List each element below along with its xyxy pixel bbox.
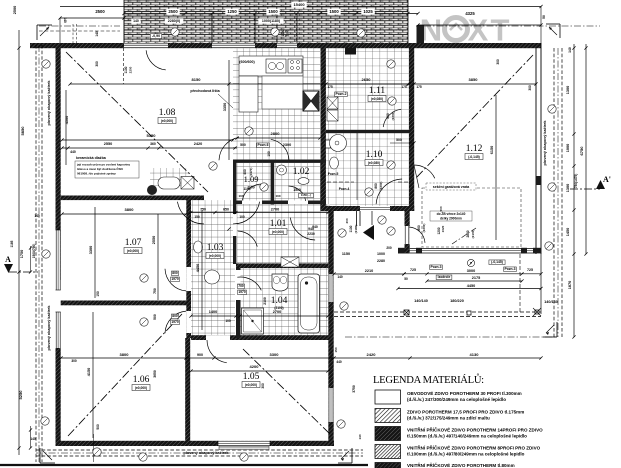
window west wall 1.06 — [56, 312, 61, 352]
room label 1.12 — [465, 144, 483, 160]
svg-text:140/140: 140/140 — [544, 300, 558, 304]
svg-text:1.11: 1.11 — [369, 86, 386, 96]
bathtub 1.04 — [298, 274, 320, 333]
svg-text:těleso a musí být dodržena ČSN: těleso a musí být dodržena ČSN — [77, 166, 123, 171]
svg-text:1750: 1750 — [20, 250, 24, 258]
svg-text:500: 500 — [396, 138, 402, 142]
svg-text:50: 50 — [542, 15, 546, 19]
svg-text:T: T — [491, 13, 510, 48]
washbasin 1.04 — [272, 274, 288, 291]
svg-text:300: 300 — [95, 61, 99, 67]
svg-text:6750: 6750 — [579, 146, 584, 156]
svg-text:4130: 4130 — [470, 352, 480, 357]
diagonal 1.08 — [66, 52, 208, 192]
svg-text:175: 175 — [416, 85, 422, 89]
kitchen lower counter — [239, 76, 258, 112]
wall south of baths — [191, 335, 334, 340]
wall west exterior lower — [56, 348, 61, 445]
svg-text:tl.100mm (d./š./v.) 497/80/249: tl.100mm (d./š./v.) 497/80/249mm na celo… — [407, 452, 525, 457]
svg-text:5350: 5350 — [147, 133, 157, 138]
roof overhang dashdot — [345, 336, 557, 338]
svg-text:1970: 1970 — [171, 277, 179, 281]
room label 1.04 — [271, 296, 288, 310]
east wall pier — [536, 176, 542, 185]
svg-text:725: 725 — [527, 268, 533, 272]
eaves strip northwest — [39, 26, 120, 31]
kitchen counter — [239, 56, 303, 76]
room label 1.05 — [242, 372, 260, 388]
svg-text:1300: 1300 — [566, 86, 570, 94]
wall between 1.06 and 1.05 — [185, 338, 190, 441]
wall west of hall — [233, 204, 236, 264]
svg-text:440: 440 — [70, 150, 76, 154]
svg-text:plovený okapový kačírek: plovený okapový kačírek — [543, 120, 547, 166]
terrace posts — [404, 308, 541, 316]
room label 1.08 — [158, 108, 176, 124]
svg-text:VNITŘNÍ PŘÍČKOVÉ ZDIVO POROTHE: VNITŘNÍ PŘÍČKOVÉ ZDIVO POROTHERM tl.80mm — [407, 461, 515, 468]
dim 2800 kitchen — [235, 131, 321, 157]
window north 1 — [124, 43, 168, 48]
dim 4200 1.05 — [189, 364, 329, 389]
svg-text:X: X — [468, 13, 489, 48]
wall between 1.09 and 1.02 — [271, 160, 275, 205]
svg-text:2210: 2210 — [365, 269, 373, 273]
window3 dims — [281, 18, 297, 43]
dim line right — [566, 44, 578, 339]
door vestibule entry — [405, 226, 426, 244]
svg-text:6150: 6150 — [490, 146, 494, 154]
svg-text:2100: 2100 — [263, 297, 267, 305]
window south wall — [218, 441, 270, 446]
dim line 4325 — [416, 5, 546, 43]
svg-text:2175: 2175 — [472, 276, 480, 280]
dim 1150 950 1.10 — [328, 172, 350, 191]
svg-text:plovený okapový kačírek: plovený okapový kačírek — [47, 305, 51, 351]
dim line right outer — [579, 44, 588, 256]
kitchen sink — [266, 59, 286, 73]
svg-text:5850: 5850 — [20, 126, 25, 136]
svg-text:500: 500 — [96, 424, 100, 430]
svg-text:440: 440 — [336, 360, 342, 364]
svg-text:(2200): (2200) — [422, 224, 426, 233]
tile floor hall 1.01 — [237, 204, 330, 263]
svg-text:(600/600): (600/600) — [239, 60, 255, 64]
wall between 1.11 and 1.10 — [326, 130, 409, 133]
svg-text:tl.150mm (d./š./v.) 497/140/24: tl.150mm (d./š./v.) 497/140/249mm na cel… — [407, 434, 527, 439]
door labels 1.07 — [171, 271, 180, 325]
svg-text:1300: 1300 — [566, 184, 570, 192]
svg-text:-0,90: -0,90 — [152, 34, 160, 38]
svg-text:Pozn.2: Pozn.2 — [336, 92, 347, 96]
window north 2 — [212, 43, 255, 48]
svg-text:1970: 1970 — [238, 290, 246, 294]
wall east of vestibule — [405, 211, 410, 253]
svg-text:(2200): (2200) — [391, 112, 395, 121]
svg-text:750: 750 — [153, 288, 157, 294]
door 1.07 lower — [165, 311, 186, 333]
door gaps west of 1.03 — [186, 267, 191, 333]
doors 1.08 to hall — [177, 202, 259, 224]
svg-text:3300: 3300 — [270, 352, 280, 357]
svg-text:VNITŘNÍ PŘÍČKOVÉ ZDIVO POROTHE: VNITŘNÍ PŘÍČKOVÉ ZDIVO POROTHERM 8PROFI … — [407, 443, 541, 450]
svg-text:VNITŘNÍ PŘÍČKOVÉ ZDIVO POROTHE: VNITŘNÍ PŘÍČKOVÉ ZDIVO POROTHERM 14PROFI… — [407, 425, 543, 432]
corner bracket SW — [40, 448, 55, 463]
post labels — [414, 299, 558, 304]
svg-text:2550: 2550 — [152, 236, 156, 244]
window wall dims — [396, 259, 542, 290]
svg-text:4200: 4200 — [250, 364, 260, 369]
tile floor room 1.03 — [191, 200, 235, 336]
svg-text:150: 150 — [334, 347, 338, 352]
dim 5350 — [60, 133, 234, 142]
wall top of 1.09 1.02 — [233, 160, 326, 163]
window west wall 1.07 — [56, 230, 61, 290]
svg-text:1.07: 1.07 — [125, 238, 142, 248]
note do vence — [430, 206, 472, 232]
door 1.11 — [383, 109, 401, 127]
door 1.12 side — [414, 165, 435, 188]
dim 2550 vert 1.07 — [152, 214, 158, 300]
brick band overlay lines — [124, 0, 408, 43]
porch line top left — [60, 17, 124, 43]
tile floor room 1.04 — [241, 268, 329, 338]
wall south of 1.10 — [321, 206, 415, 211]
svg-text:1.02: 1.02 — [293, 167, 310, 177]
svg-text:1.06: 1.06 — [133, 375, 150, 385]
tile floor room 1.10 — [326, 133, 409, 206]
svg-text:1.12: 1.12 — [466, 144, 483, 154]
svg-text:200: 200 — [345, 218, 349, 223]
svg-text:OBVODOVÉ ZDIVO POROTHERM 30 PR: OBVODOVÉ ZDIVO POROTHERM 30 PROFI tl.300… — [407, 389, 522, 396]
svg-text:1870: 1870 — [568, 281, 572, 289]
ext line bottom left — [93, 434, 95, 462]
dim 2550 row — [60, 142, 237, 154]
door 1.10 — [376, 179, 402, 204]
svg-text:15400: 15400 — [293, 2, 305, 7]
dim 8150 — [68, 77, 409, 86]
porch dashes — [73, 24, 77, 43]
svg-text:1.04: 1.04 — [271, 296, 288, 306]
svg-text:(±0,000): (±0,000) — [245, 383, 257, 387]
svg-text:100: 100 — [238, 194, 243, 198]
label 600/600 — [239, 60, 255, 64]
room label 1.03 — [206, 243, 224, 259]
svg-text:plovený okapový kačírek: plovený okapový kačírek — [184, 451, 230, 455]
room label 1.02 — [293, 167, 310, 177]
tile floor room 1.11 — [326, 48, 409, 130]
section mark A prime — [570, 175, 611, 189]
svg-text:Pozn.3: Pozn.3 — [431, 265, 442, 269]
wall pier kitchen north — [345, 48, 356, 55]
svg-text:1.10: 1.10 — [366, 150, 383, 160]
svg-text:A: A — [5, 255, 11, 264]
svg-text:200: 200 — [386, 246, 392, 250]
svg-text:2200: 2200 — [286, 29, 290, 36]
circle markers — [41, 28, 556, 461]
svg-text:1000(1180): 1000(1180) — [262, 19, 281, 23]
svg-text:(d./š./v.) 372/175/249mm na zd: (d./š./v.) 372/175/249mm na zdící maltu — [407, 416, 490, 421]
svg-text:1020: 1020 — [441, 225, 445, 232]
svg-text:1500: 1500 — [329, 9, 339, 14]
window east wall upper — [328, 274, 333, 302]
toilet 1.02 — [277, 165, 310, 184]
pillar at brick end — [417, 25, 425, 43]
svg-text:2280: 2280 — [377, 259, 385, 263]
entry mat — [281, 257, 299, 267]
left dim inner segments — [29, 246, 32, 450]
brick facing north facade — [124, 0, 408, 43]
texts 1.09 dims — [238, 168, 317, 229]
dim line bottom terrace — [332, 352, 542, 360]
note keramicka dlazba — [75, 156, 139, 178]
dim 3850 1.12 — [412, 77, 537, 91]
door label 1.10 — [374, 182, 383, 191]
eaves strip south — [36, 450, 363, 456]
svg-text:140: 140 — [63, 17, 67, 23]
sill south window — [219, 446, 269, 449]
svg-text:100: 100 — [275, 194, 280, 198]
svg-text:300: 300 — [71, 359, 77, 363]
dim 4150 vert 1.06 — [71, 312, 157, 438]
svg-text:LEGENDA MATERIÁLŮ:: LEGENDA MATERIÁLŮ: — [373, 373, 484, 386]
svg-text:(d./š./v.) 247/300/249mm na ce: (d./š./v.) 247/300/249mm na celoplošné l… — [407, 397, 506, 402]
svg-text:(-0,145): (-0,145) — [468, 155, 480, 159]
svg-text:140/140: 140/140 — [414, 299, 428, 303]
wall west of 1.03 — [186, 200, 191, 338]
svg-text:940: 940 — [308, 227, 314, 231]
room label 1.09 — [244, 174, 259, 190]
svg-text:4500: 4500 — [65, 116, 69, 124]
window north 3 — [277, 43, 297, 48]
dim 6150 vert 1.12 — [490, 59, 500, 240]
svg-text:2420: 2420 — [194, 142, 202, 146]
hall dim row — [189, 208, 329, 220]
wall south of 1.09 1.02 — [233, 201, 326, 205]
door 1.02 — [289, 186, 306, 201]
wall west of 1.09 — [233, 160, 236, 205]
level box -0.90 — [150, 34, 161, 39]
svg-text:1.09: 1.09 — [244, 174, 259, 184]
svg-text:800: 800 — [172, 314, 178, 318]
svg-text:4150: 4150 — [87, 368, 91, 376]
svg-text:150: 150 — [96, 291, 100, 297]
diagonal 1.06 — [68, 314, 182, 436]
svg-text:3800: 3800 — [120, 352, 130, 357]
dim 2700 1.04 — [238, 297, 329, 317]
svg-text:2650: 2650 — [362, 77, 372, 82]
svg-text:délky 2000mm: délky 2000mm — [440, 217, 462, 221]
door hall to 1.03 — [238, 231, 258, 247]
corner bracket SE terrace — [543, 322, 557, 337]
svg-text:1185: 1185 — [10, 240, 14, 247]
wc 1.03 — [194, 241, 203, 253]
svg-text:2230: 2230 — [307, 232, 315, 236]
wall north of 1.04 — [236, 263, 328, 268]
door hall east — [290, 218, 315, 240]
wall between 1.07 and 1.06 — [61, 301, 187, 306]
svg-text:sekční garážová vrata: sekční garážová vrata — [433, 185, 469, 189]
svg-text:500: 500 — [153, 314, 157, 320]
svg-text:180/220: 180/220 — [450, 299, 464, 303]
svg-text:1.03: 1.03 — [207, 243, 224, 253]
svg-text:700: 700 — [238, 284, 244, 288]
wall west exterior upper — [56, 43, 61, 280]
corner bracket NW — [37, 25, 52, 40]
svg-text:(2200): (2200) — [379, 182, 383, 191]
eaves strip west — [36, 45, 42, 462]
svg-text:175: 175 — [327, 85, 333, 89]
svg-text:140: 140 — [133, 19, 139, 23]
entrance arrow marker — [363, 211, 374, 240]
svg-text:650: 650 — [223, 208, 229, 212]
svg-text:3000: 3000 — [467, 269, 475, 273]
dim 1400 1.03 — [189, 310, 237, 323]
kitchen stove — [288, 59, 302, 73]
svg-text:2200: 2200 — [129, 66, 133, 73]
corner bracket S right — [338, 448, 352, 463]
window east wall lower — [328, 388, 333, 422]
door kitchen south — [219, 137, 289, 160]
section dash 1.10 — [327, 181, 409, 183]
chimney flue box — [303, 91, 319, 111]
svg-text:Pozn.3: Pozn.3 — [505, 267, 516, 271]
dim line left outer — [10, 6, 36, 455]
svg-text:900: 900 — [197, 353, 203, 357]
svg-text:3750: 3750 — [352, 385, 356, 393]
svg-text:keramická dlažba: keramická dlažba — [76, 156, 107, 160]
east wall texts — [334, 347, 362, 439]
svg-text:1000: 1000 — [377, 252, 385, 256]
room label 1.11 — [368, 86, 386, 102]
fireplace stove — [147, 177, 194, 196]
door label 940 — [307, 227, 315, 236]
svg-text:150: 150 — [194, 215, 200, 219]
door gap to 1.03 — [206, 335, 230, 340]
svg-text:3350: 3350 — [223, 103, 227, 111]
svg-text:(±0,000): (±0,000) — [209, 254, 221, 258]
section mark A — [4, 255, 38, 273]
svg-text:3800: 3800 — [125, 207, 135, 212]
door 1.07 upper — [165, 269, 186, 291]
svg-text:2700: 2700 — [273, 310, 281, 314]
svg-text:1400: 1400 — [209, 310, 217, 314]
svg-text:500: 500 — [439, 206, 443, 211]
svg-text:2280(0): 2280(0) — [168, 19, 181, 23]
svg-text:140: 140 — [34, 214, 40, 218]
svg-text:(2180): (2180) — [354, 225, 358, 234]
door 1.08 entry top — [95, 48, 166, 84]
label sekcni vrata — [426, 183, 476, 190]
svg-text:140: 140 — [95, 31, 99, 37]
svg-text:(±0,080): (±0,080) — [371, 97, 383, 101]
svg-text:360: 360 — [150, 142, 156, 146]
tile floor kitchen 1.08 — [233, 48, 320, 160]
wall south solid west part — [56, 441, 335, 446]
washbasin 1.03 — [205, 270, 220, 284]
svg-text:1.01: 1.01 — [270, 219, 287, 229]
wall west of 1.12 — [409, 48, 414, 211]
svg-text:300: 300 — [261, 383, 265, 389]
svg-text:140: 140 — [358, 434, 362, 439]
heater tab 1.10 — [326, 140, 331, 148]
legend materials — [373, 373, 543, 468]
dim 3300 vert 1.07 — [89, 207, 95, 298]
wall north facade — [30, 43, 541, 48]
door 1.03 south — [207, 340, 227, 363]
svg-text:(±0,000): (±0,000) — [135, 386, 147, 390]
svg-text:1.08: 1.08 — [159, 108, 176, 118]
diagonal 1.12 — [416, 55, 533, 178]
svg-text:2850: 2850 — [466, 230, 470, 237]
svg-text:1000: 1000 — [566, 144, 570, 152]
svg-text:(2100): (2100) — [274, 306, 283, 310]
door label 1.11 — [386, 112, 395, 121]
wc 1.10 — [330, 157, 339, 169]
svg-text:1500: 1500 — [293, 188, 301, 192]
svg-text:1500(790): 1500(790) — [32, 244, 36, 259]
svg-text:1100: 1100 — [281, 29, 285, 36]
dims near 1.12 south — [417, 224, 475, 239]
svg-text:3300: 3300 — [89, 246, 93, 254]
svg-text:1.05: 1.05 — [243, 372, 260, 382]
svg-text:ZDIVO POROTHERM 17,5 PROFI PRO: ZDIVO POROTHERM 17,5 PROFI PRO ZDIVO tl.… — [407, 409, 524, 414]
svg-text:140: 140 — [337, 275, 343, 279]
leader prechodova — [190, 89, 233, 108]
dim 500 1.10 — [357, 133, 416, 200]
dim line top — [58, 9, 419, 20]
svg-text:4450: 4450 — [196, 264, 200, 272]
dim 4500 vert — [65, 90, 69, 165]
washbasin 1.10 — [330, 135, 347, 152]
eaves dashdot northeast — [424, 25, 600, 27]
dim row windows — [124, 18, 408, 24]
kitchen island table — [262, 76, 303, 109]
svg-text:1100: 1100 — [124, 66, 128, 73]
svg-text:100: 100 — [267, 151, 271, 157]
svg-text:Pozn.6: Pozn.6 — [258, 143, 269, 147]
corner bracket NE — [546, 24, 560, 38]
door 1.04 — [237, 277, 261, 290]
dim 2650 1.11 — [324, 77, 410, 89]
svg-text:(2100): (2100) — [471, 230, 475, 239]
svg-text:750(1475): 750(1475) — [574, 174, 578, 189]
svg-text:1150(...): 1150(...) — [301, 193, 311, 197]
svg-text:2800: 2800 — [271, 131, 281, 136]
terrace edge dashed — [334, 254, 541, 317]
svg-text:Izodrole: Izodrole — [438, 275, 451, 279]
svg-text:1100: 1100 — [349, 225, 353, 232]
diagonal vestibule — [452, 228, 476, 244]
svg-text:100: 100 — [239, 215, 245, 219]
terrace east edge — [540, 254, 542, 314]
shower tray 1.04 — [242, 308, 264, 334]
svg-text:(±0,000): (±0,000) — [127, 249, 139, 253]
svg-text:3850: 3850 — [469, 77, 479, 82]
svg-text:2300: 2300 — [283, 143, 291, 147]
svg-text:1500: 1500 — [268, 9, 278, 14]
dim 3800 1.07 — [60, 207, 187, 320]
tile floor 1.09 — [237, 163, 271, 201]
eaves strip east — [554, 48, 562, 337]
svg-text:Pozn.4: Pozn.4 — [339, 187, 350, 191]
dim 4450 vert 1.03 — [196, 210, 202, 330]
wall south window-wall of wing — [398, 248, 541, 254]
svg-text:50: 50 — [404, 277, 408, 281]
svg-text:175: 175 — [401, 85, 407, 89]
washer in 1.11 — [327, 97, 338, 121]
svg-text:725: 725 — [410, 268, 416, 272]
svg-text:800: 800 — [172, 271, 178, 275]
